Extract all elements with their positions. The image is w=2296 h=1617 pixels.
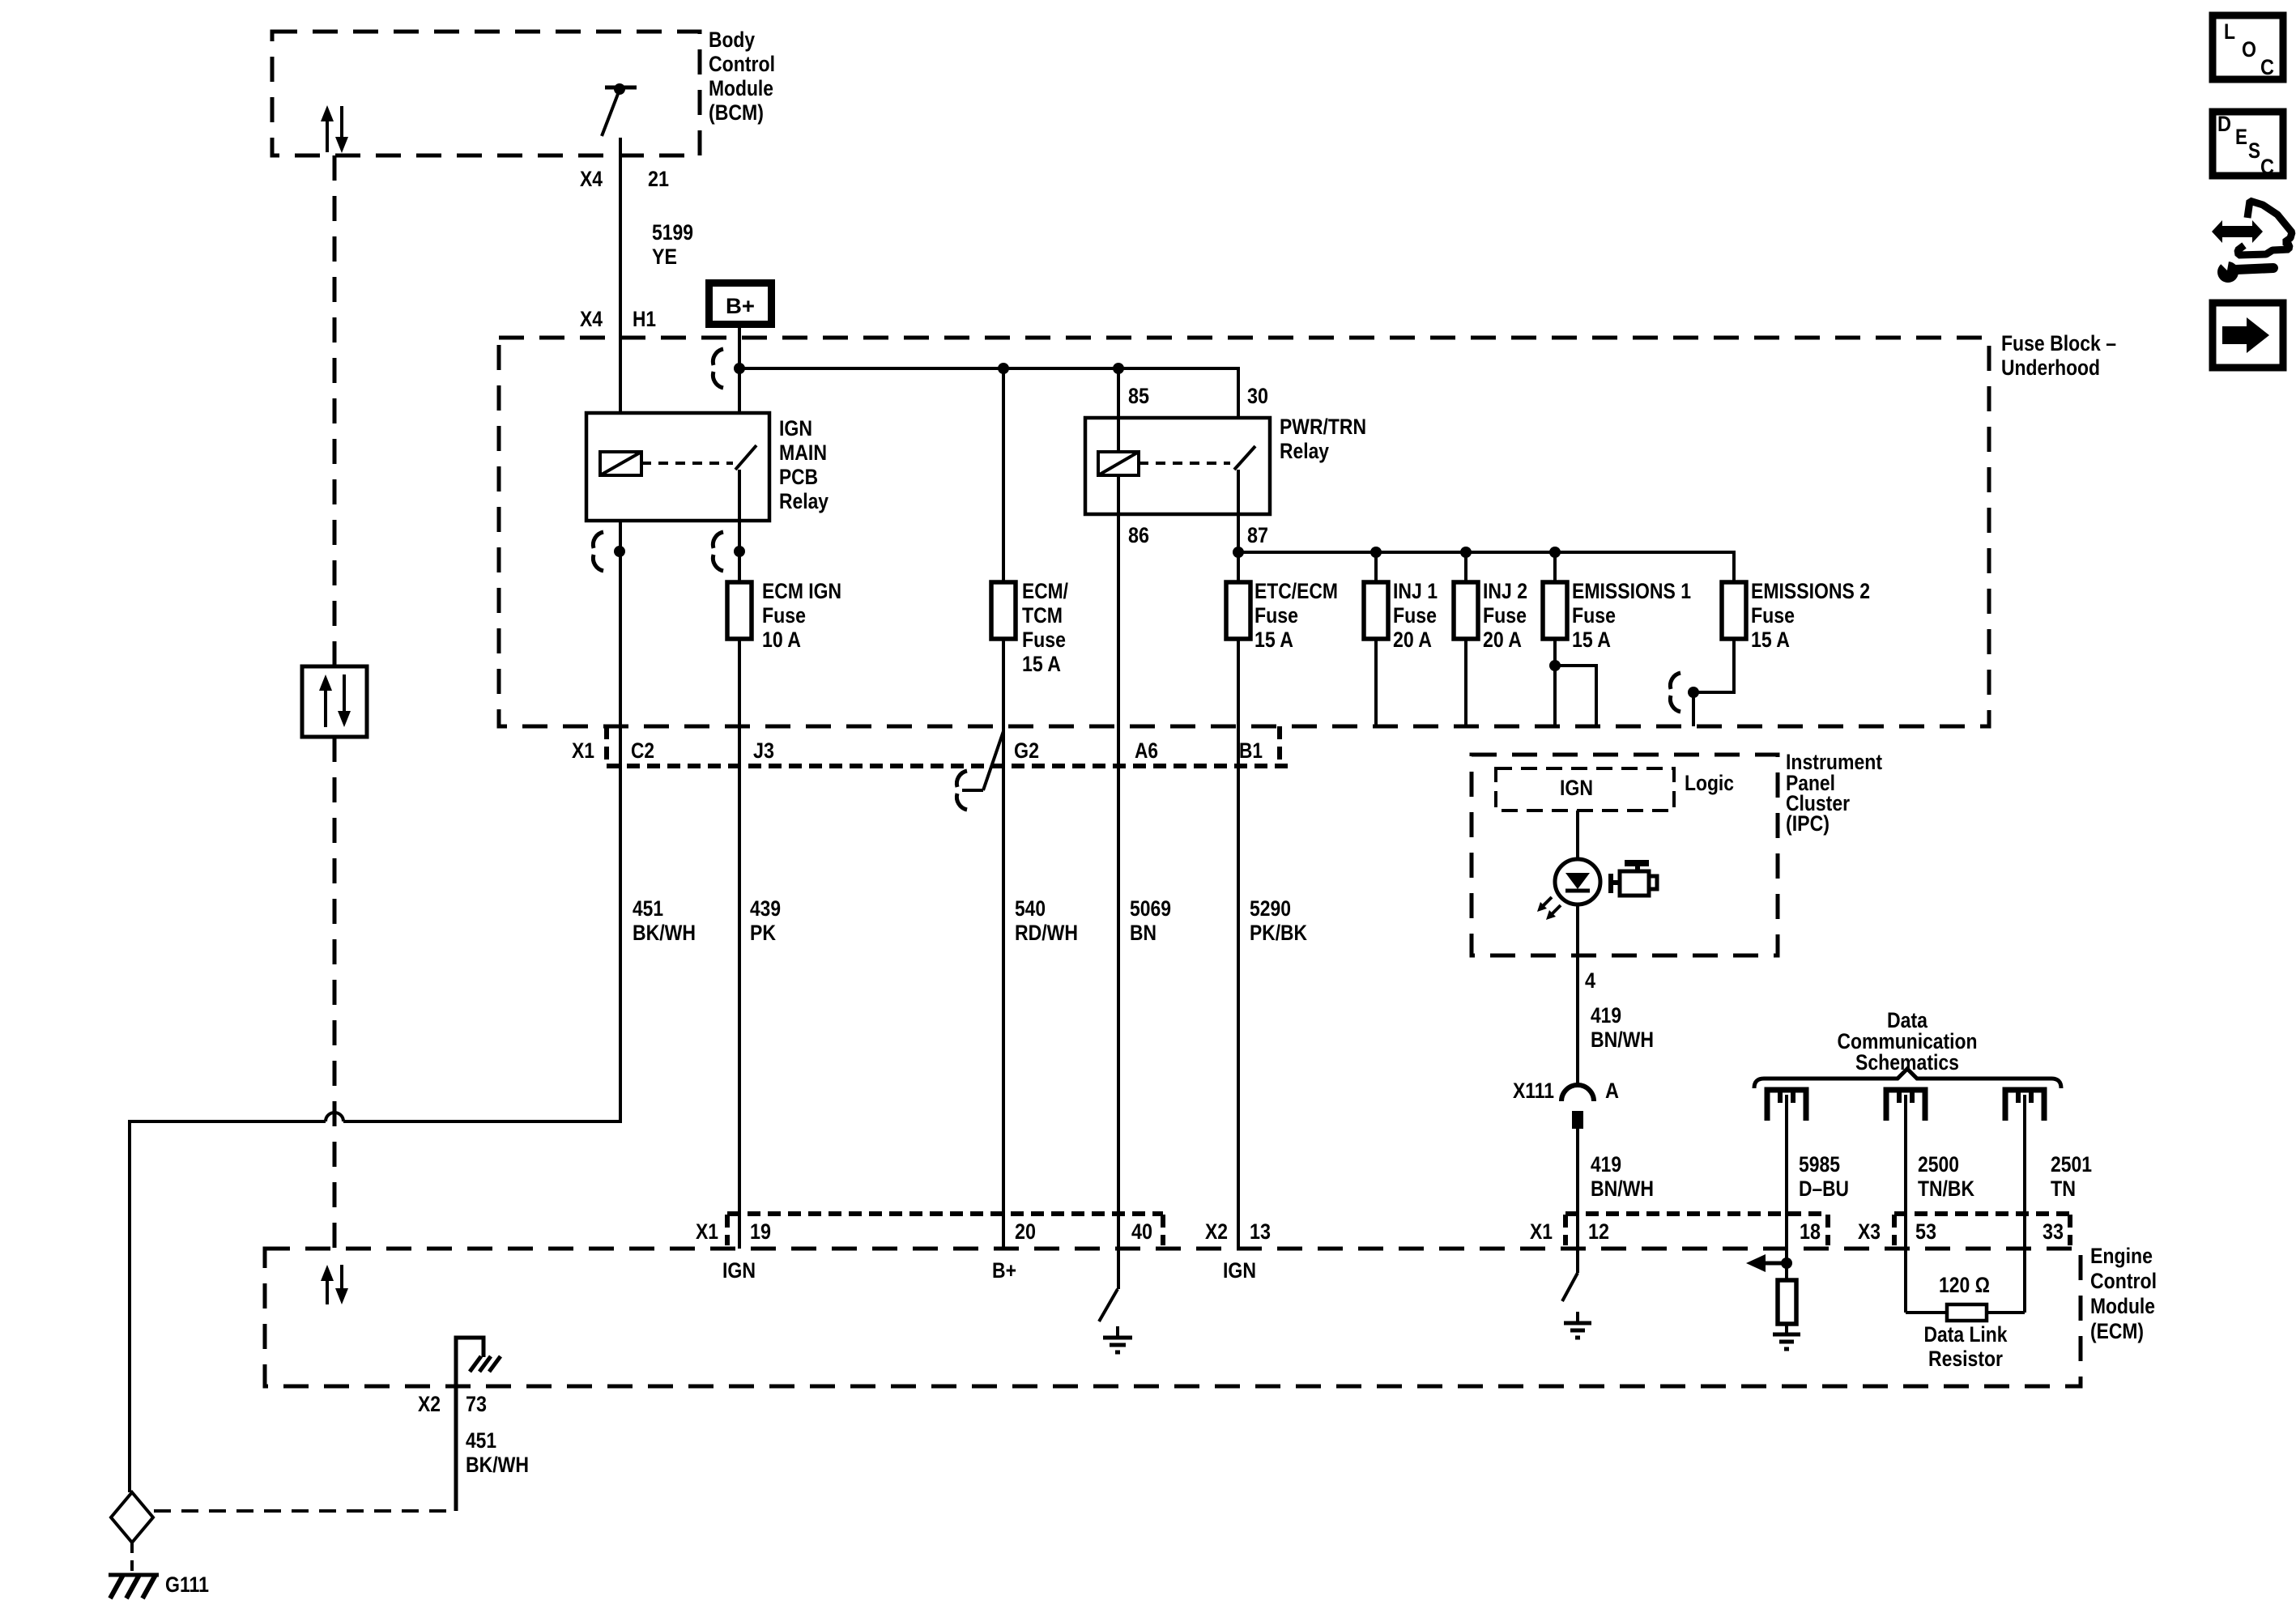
svg-text:G2: G2 bbox=[1014, 738, 1039, 763]
svg-text:20 A: 20 A bbox=[1483, 628, 1522, 652]
svg-text:PCB: PCB bbox=[779, 465, 818, 489]
svg-text:B+: B+ bbox=[992, 1258, 1016, 1283]
svg-text:Module: Module bbox=[709, 76, 773, 100]
splice clip at B+ junction bbox=[713, 349, 723, 388]
MIL indicator LED bbox=[1555, 859, 1600, 904]
svg-text:13: 13 bbox=[1250, 1219, 1271, 1244]
wire 419 below X111 bbox=[1576, 1129, 1579, 1273]
svg-text:Body: Body bbox=[709, 28, 755, 52]
data link resistor 120 ohm bbox=[1906, 1273, 2025, 1371]
svg-text:(ECM): (ECM) bbox=[2090, 1319, 2144, 1343]
svg-text:EMISSIONS 1: EMISSIONS 1 bbox=[1572, 579, 1691, 603]
svg-text:Control: Control bbox=[2090, 1269, 2157, 1293]
wire hop over BCM dashed leg bbox=[326, 1113, 343, 1121]
svg-text:D–BU: D–BU bbox=[1799, 1177, 1849, 1201]
svg-text:Fuse: Fuse bbox=[1254, 603, 1298, 628]
fuse INJ 2 20A bbox=[1454, 582, 1478, 639]
bus drops to fuses bbox=[1374, 552, 1378, 582]
svg-text:2501: 2501 bbox=[2051, 1152, 2092, 1177]
wire ECM/TCM feed from bus bbox=[1002, 368, 1005, 582]
svg-text:IGN: IGN bbox=[722, 1258, 756, 1283]
fuse ECM/TCM 15A bbox=[991, 582, 1016, 639]
Fuse Block - Underhood box bbox=[499, 338, 1989, 726]
svg-text:L: L bbox=[2224, 19, 2235, 44]
svg-text:D: D bbox=[2217, 112, 2231, 136]
wires below EMISSIONS 2 fuse bbox=[1693, 639, 1734, 692]
splice clips and dots below relay bbox=[614, 546, 625, 557]
fuse ETC/ECM 15A bbox=[1226, 582, 1250, 639]
svg-text:Fuse: Fuse bbox=[762, 603, 806, 628]
G2 take-out lead with clip bbox=[956, 731, 1003, 810]
junction dots on B+ bus bbox=[734, 363, 745, 374]
IGN relay coil-switch dashed link bbox=[641, 462, 733, 465]
wire 2500 TN/BK bbox=[1904, 1095, 1907, 1313]
svg-text:4: 4 bbox=[1585, 968, 1595, 993]
fuse EMISSIONS 2 15A bbox=[1722, 582, 1746, 639]
svg-text:ETC/ECM: ETC/ECM bbox=[1254, 579, 1338, 603]
BCM serial-data arrows bbox=[321, 105, 348, 153]
svg-text:X2: X2 bbox=[1205, 1219, 1228, 1244]
ECM pin 73 internal chassis ground bbox=[456, 1338, 501, 1511]
off-page connector fork (18) bbox=[1767, 1090, 1806, 1121]
pin 87 distribution bus bbox=[1238, 552, 1734, 582]
svg-text:(IPC): (IPC) bbox=[1786, 811, 1830, 836]
svg-text:E: E bbox=[2235, 125, 2247, 149]
svg-text:33: 33 bbox=[2043, 1219, 2064, 1244]
svg-text:X4: X4 bbox=[580, 167, 603, 191]
ECM pin 12 internal switch to ground bbox=[1562, 1273, 1591, 1338]
fuse EMISSIONS 1 15A bbox=[1543, 582, 1567, 639]
svg-text:Data Link: Data Link bbox=[1924, 1322, 2008, 1347]
IGN relay switch bbox=[735, 445, 756, 470]
svg-text:INJ 2: INJ 2 bbox=[1483, 579, 1527, 603]
svg-text:TN: TN bbox=[2051, 1177, 2076, 1201]
ECM pin 18 internal terminator bbox=[1746, 1254, 1800, 1349]
svg-text:X2: X2 bbox=[418, 1392, 441, 1416]
svg-text:15 A: 15 A bbox=[1572, 628, 1611, 652]
PWR/TRN coil + wire 85 bbox=[1117, 368, 1120, 452]
svg-text:Engine: Engine bbox=[2090, 1244, 2153, 1268]
svg-text:5069: 5069 bbox=[1130, 896, 1171, 921]
wire 5985 D-BU bbox=[1785, 1095, 1788, 1263]
dashed wire to G111 bbox=[130, 1543, 134, 1572]
IGN logic box bbox=[1496, 768, 1674, 811]
svg-text:Control: Control bbox=[709, 52, 775, 76]
Engine Control Module box bbox=[265, 1249, 2081, 1386]
svg-text:20: 20 bbox=[1015, 1219, 1036, 1244]
svg-text:IGN: IGN bbox=[1560, 776, 1593, 800]
svg-text:X1: X1 bbox=[1530, 1219, 1553, 1244]
svg-text:15 A: 15 A bbox=[1022, 652, 1061, 676]
svg-text:Fuse: Fuse bbox=[1751, 603, 1795, 628]
wire 86 down (5069 BN) bbox=[1117, 475, 1120, 1289]
svg-text:H1: H1 bbox=[633, 307, 656, 331]
svg-text:O: O bbox=[2242, 37, 2256, 62]
svg-text:B1: B1 bbox=[1239, 738, 1263, 763]
BCM dashed leg wire bbox=[333, 155, 337, 666]
PWR/TRN relay box bbox=[1085, 418, 1270, 514]
svg-text:5199: 5199 bbox=[652, 220, 693, 245]
icon harness double arrow bbox=[2212, 220, 2263, 243]
icon harness outline bbox=[2238, 201, 2292, 255]
brace bbox=[1754, 1069, 2061, 1088]
svg-text:Fuse: Fuse bbox=[1393, 603, 1437, 628]
svg-text:Fuse Block –: Fuse Block – bbox=[2001, 331, 2116, 355]
icon LOC bbox=[2213, 15, 2283, 79]
svg-text:INJ 1: INJ 1 bbox=[1393, 579, 1438, 603]
connector strip above ECM: X1 19/20/40 bbox=[727, 1211, 1163, 1216]
svg-text:120 Ω: 120 Ω bbox=[1939, 1273, 1990, 1297]
svg-text:YE: YE bbox=[652, 245, 677, 269]
svg-text:451: 451 bbox=[466, 1428, 496, 1453]
svg-text:10 A: 10 A bbox=[762, 628, 801, 652]
IGN relay switch output wire bbox=[738, 470, 741, 582]
svg-text:A6: A6 bbox=[1135, 738, 1158, 763]
splice diamond bbox=[111, 1492, 153, 1543]
connector strip X3 53/33 bbox=[1894, 1211, 2070, 1216]
svg-text:5290: 5290 bbox=[1250, 896, 1291, 921]
svg-text:Fuse: Fuse bbox=[1572, 603, 1616, 628]
svg-text:20 A: 20 A bbox=[1393, 628, 1432, 652]
svg-text:PWR/TRN: PWR/TRN bbox=[1280, 415, 1366, 439]
boxed serial data arrows on leg bbox=[302, 666, 367, 737]
svg-text:53: 53 bbox=[1915, 1219, 1936, 1244]
svg-text:Module: Module bbox=[2090, 1294, 2155, 1318]
svg-text:21: 21 bbox=[648, 167, 669, 191]
PWR/TRN coil-switch dashed link bbox=[1139, 462, 1230, 465]
svg-text:IGN: IGN bbox=[1223, 1258, 1256, 1283]
svg-text:85: 85 bbox=[1128, 384, 1149, 408]
wire logic to indicator bbox=[1576, 811, 1579, 859]
svg-text:RD/WH: RD/WH bbox=[1015, 921, 1078, 945]
svg-text:439: 439 bbox=[750, 896, 781, 921]
svg-text:IGN: IGN bbox=[779, 416, 812, 440]
svg-text:B+: B+ bbox=[726, 294, 755, 318]
svg-text:BN/WH: BN/WH bbox=[1591, 1028, 1654, 1052]
wires below EMISSIONS 1 fuse bbox=[1553, 639, 1557, 726]
wire 2501 TN bbox=[2023, 1095, 2026, 1313]
svg-text:2500: 2500 bbox=[1918, 1152, 1959, 1177]
icon DESC bbox=[2213, 112, 2283, 179]
svg-text:73: 73 bbox=[466, 1392, 487, 1416]
X111 inline connector bbox=[1513, 1079, 1619, 1129]
svg-text:ECM IGN: ECM IGN bbox=[762, 579, 841, 603]
connector strip X1 12/18 bbox=[1565, 1211, 1828, 1216]
BCM internal switch bbox=[602, 83, 637, 136]
svg-text:PK: PK bbox=[750, 921, 776, 945]
Instrument Panel Cluster box bbox=[1472, 755, 1778, 955]
svg-text:86: 86 bbox=[1128, 523, 1149, 547]
splice clip at EMISSIONS 2 branch bbox=[1670, 673, 1680, 712]
svg-text:C2: C2 bbox=[631, 738, 654, 763]
svg-text:87: 87 bbox=[1247, 523, 1268, 547]
svg-text:G111: G111 bbox=[165, 1572, 209, 1597]
svg-text:PK/BK: PK/BK bbox=[1250, 921, 1307, 945]
svg-text:5985: 5985 bbox=[1799, 1152, 1840, 1177]
svg-text:15 A: 15 A bbox=[1254, 628, 1293, 652]
LED emission arrows bbox=[1537, 897, 1561, 920]
svg-text:C: C bbox=[2260, 155, 2274, 179]
svg-text:ECM/: ECM/ bbox=[1022, 579, 1068, 603]
svg-text:Relay: Relay bbox=[779, 489, 829, 513]
icon forward arrow box bbox=[2213, 303, 2283, 368]
svg-text:X1: X1 bbox=[696, 1219, 718, 1244]
wire 540 RD/WH below ECM/TCM fuse bbox=[1002, 639, 1005, 1249]
svg-text:BK/WH: BK/WH bbox=[633, 921, 696, 945]
svg-text:Relay: Relay bbox=[1280, 439, 1329, 463]
svg-text:J3: J3 bbox=[753, 738, 774, 763]
B+ power symbol bbox=[709, 283, 772, 325]
svg-text:18: 18 bbox=[1800, 1219, 1821, 1244]
svg-text:30: 30 bbox=[1247, 384, 1268, 408]
svg-text:(BCM): (BCM) bbox=[709, 100, 764, 125]
fuse ECM IGN 10A bbox=[727, 582, 752, 639]
wire B+ feed and bus to relay pin 30 bbox=[738, 328, 741, 444]
Body Control Module (BCM) box bbox=[272, 32, 700, 155]
svg-text:540: 540 bbox=[1015, 896, 1046, 921]
ground G111 bbox=[109, 1572, 209, 1598]
wire 439 PK below ECM IGN fuse bbox=[738, 639, 741, 1249]
svg-text:Resistor: Resistor bbox=[1928, 1347, 2003, 1371]
icon wrench bbox=[2216, 257, 2273, 283]
svg-text:TCM: TCM bbox=[1022, 603, 1063, 628]
svg-text:BK/WH: BK/WH bbox=[466, 1453, 529, 1477]
wire 5199/451 main vertical and 451 run to left bbox=[619, 138, 622, 452]
wire 87 down bbox=[1237, 470, 1240, 582]
svg-text:Fuse: Fuse bbox=[1483, 603, 1527, 628]
engine pictogram bbox=[1608, 860, 1657, 896]
IGN MAIN PCB relay box bbox=[586, 413, 769, 521]
off-page connector fork (33) bbox=[2005, 1090, 2044, 1121]
svg-text:BN: BN bbox=[1130, 921, 1157, 945]
svg-text:Fuse: Fuse bbox=[1022, 628, 1066, 652]
ECM serial data arrows bbox=[321, 1265, 348, 1304]
svg-text:A: A bbox=[1605, 1079, 1619, 1103]
svg-text:BN/WH: BN/WH bbox=[1591, 1177, 1654, 1201]
off-page connector fork (53) bbox=[1886, 1090, 1925, 1121]
fuse INJ 1 20A bbox=[1364, 582, 1388, 639]
svg-text:15 A: 15 A bbox=[1751, 628, 1790, 652]
wire below INJ 2 fuse bbox=[1464, 639, 1467, 726]
svg-text:419: 419 bbox=[1591, 1152, 1621, 1177]
wire below INJ 1 fuse bbox=[1374, 639, 1378, 726]
svg-text:40: 40 bbox=[1131, 1219, 1152, 1244]
svg-text:419: 419 bbox=[1591, 1003, 1621, 1028]
svg-text:19: 19 bbox=[750, 1219, 771, 1244]
svg-text:451: 451 bbox=[633, 896, 663, 921]
ECM pin 40 internal switch to ground bbox=[1099, 1289, 1132, 1352]
wire below LED bbox=[1576, 904, 1579, 1083]
connector X1 strip below fuse block bbox=[604, 726, 609, 766]
svg-text:S: S bbox=[2248, 138, 2260, 163]
dashed link diamond to X2-73 bbox=[154, 1509, 454, 1513]
svg-text:MAIN: MAIN bbox=[779, 440, 827, 465]
svg-text:C: C bbox=[2260, 55, 2274, 79]
svg-text:X4: X4 bbox=[580, 307, 603, 331]
wire 5290 PK/BK below ETC/ECM fuse bbox=[1237, 639, 1240, 1249]
svg-text:X3: X3 bbox=[1858, 1219, 1881, 1244]
IGN relay coil bbox=[600, 452, 641, 475]
svg-text:TN/BK: TN/BK bbox=[1918, 1177, 1974, 1201]
PWR/TRN switch bbox=[1234, 446, 1255, 470]
svg-text:Underhood: Underhood bbox=[2001, 355, 2100, 380]
svg-text:X111: X111 bbox=[1513, 1079, 1554, 1103]
svg-text:12: 12 bbox=[1588, 1219, 1609, 1244]
svg-text:Logic: Logic bbox=[1685, 771, 1734, 795]
svg-text:X1: X1 bbox=[572, 738, 594, 763]
svg-text:EMISSIONS 2: EMISSIONS 2 bbox=[1751, 579, 1870, 603]
